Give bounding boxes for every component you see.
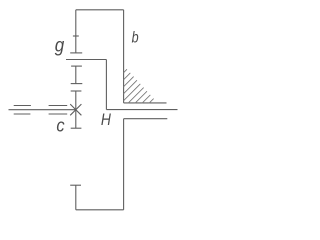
beam lower dash 1 — [14, 113, 31, 115]
heater bottom line — [76, 209, 124, 211]
heater T bar — [70, 184, 81, 186]
grid lead tick — [73, 35, 79, 37]
heater right vertical — [123, 119, 125, 210]
crossover X arm 1 — [70, 104, 81, 115]
heater plate H upper — [124, 118, 168, 120]
svg-text:b: b — [132, 30, 139, 47]
beam upper dash 1 — [14, 105, 31, 107]
capacitor I bottom bar — [71, 83, 83, 85]
svg-text:c: c — [56, 115, 64, 135]
capacitor I vertical — [75, 66, 77, 84]
wall hatching — [93, 65, 187, 103]
electrode g right horizontal — [106, 109, 177, 111]
cathode bottom bar — [71, 127, 82, 129]
electrode g vertical — [105, 60, 107, 110]
electrode b top edge — [76, 9, 124, 11]
grid plate bar — [70, 52, 82, 54]
cathode vertical wire — [75, 91, 77, 128]
svg-text:g: g — [55, 35, 65, 56]
svg-text:H: H — [101, 110, 112, 129]
electrode b right vertical wire — [123, 10, 125, 103]
crossover X arm 2 — [70, 104, 81, 115]
cathode bar — [71, 90, 82, 92]
grid lead vertical — [75, 10, 77, 53]
capacitor I top bar — [71, 65, 82, 67]
wall base line — [124, 102, 167, 104]
electrode g top line — [66, 59, 106, 61]
beam upper dash 2 — [49, 105, 68, 107]
beam lower dash 2 — [49, 113, 68, 115]
beam axis line — [9, 109, 76, 111]
heater left vertical — [75, 185, 77, 210]
